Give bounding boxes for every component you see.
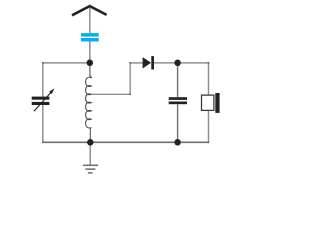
wire cap to node A: [89, 42, 91, 63]
wire ground lead: [89, 142, 91, 165]
inductor L1: [86, 61, 92, 142]
node A junction dot (antenna / tank): [87, 60, 94, 67]
earphone LS1: [202, 93, 220, 113]
wire riser to diode: [130, 62, 144, 64]
node B junction dot (detector output): [174, 60, 181, 67]
wire left branch lower: [42, 105, 44, 143]
variable capacitor arrow: [34, 88, 55, 111]
wire diode cathode to node B: [154, 62, 178, 64]
wire top rail left: [43, 62, 90, 64]
wire left branch upper: [42, 62, 44, 96]
wire earphone bottom: [208, 111, 210, 142]
wire coil tap: [91, 93, 130, 95]
wire C2 branch lower: [177, 104, 179, 143]
ground: [83, 165, 98, 173]
variable capacitor VC1: [32, 97, 50, 105]
node junction dot bottom left (coil/ground): [87, 139, 94, 146]
wire corner dark pixels: [42, 62, 209, 143]
wire bottom rail: [43, 141, 209, 143]
wire C2 branch upper: [177, 62, 179, 97]
antenna: [72, 6, 107, 15]
wire antenna lead: [89, 8, 91, 34]
wire tap riser: [129, 62, 131, 94]
node junction dot bottom right (C2): [174, 139, 181, 146]
capacitor C2: [169, 97, 187, 104]
capacitor C1 antenna coupling (highlighted): [81, 33, 99, 41]
diode D1: [143, 56, 154, 69]
wire top rail right: [178, 62, 209, 64]
wire right branch down to earphone: [208, 62, 210, 94]
